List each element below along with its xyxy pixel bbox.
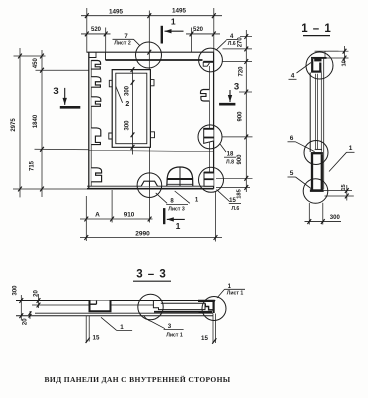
svg-text:1: 1 (120, 324, 124, 331)
svg-text:ВИД ПАНЕЛИ ДАН С ВНУТРЕННЕЙ СТ: ВИД ПАНЕЛИ ДАН С ВНУТРЕННЕЙ СТОРОНЫ (44, 375, 230, 384)
svg-text:910: 910 (124, 211, 135, 218)
svg-text:Лист 1: Лист 1 (166, 332, 183, 338)
svg-text:3 – 3: 3 – 3 (136, 269, 167, 281)
svg-text:2975: 2975 (11, 118, 17, 132)
svg-text:20: 20 (23, 318, 29, 325)
svg-text:18: 18 (227, 152, 234, 158)
svg-text:1495: 1495 (172, 7, 187, 14)
svg-text:3: 3 (53, 86, 58, 97)
svg-text:520: 520 (91, 27, 102, 33)
svg-text:270: 270 (238, 37, 244, 48)
svg-text:1840: 1840 (33, 114, 39, 128)
svg-text:3: 3 (234, 82, 239, 93)
svg-text:185: 185 (237, 189, 243, 199)
svg-text:6: 6 (290, 135, 294, 142)
svg-text:720: 720 (238, 66, 244, 77)
svg-text:2990: 2990 (135, 230, 150, 237)
svg-text:15: 15 (201, 335, 208, 342)
svg-text:900: 900 (237, 154, 243, 165)
svg-text:450: 450 (33, 58, 39, 69)
svg-text:Л.6: Л.6 (228, 41, 236, 47)
svg-text:Лист 1: Лист 1 (227, 291, 244, 297)
svg-text:4: 4 (291, 73, 295, 80)
svg-text:А: А (95, 212, 100, 219)
svg-text:715: 715 (30, 160, 36, 171)
svg-text:900: 900 (238, 111, 244, 122)
svg-text:2: 2 (125, 101, 129, 108)
svg-text:300: 300 (124, 120, 130, 131)
svg-text:300: 300 (13, 285, 19, 296)
svg-text:1 – 1: 1 – 1 (301, 23, 332, 35)
svg-text:1495: 1495 (109, 8, 124, 15)
svg-text:15: 15 (341, 184, 347, 190)
svg-text:Лист 2: Лист 2 (114, 41, 131, 47)
svg-text:Л.8: Л.8 (226, 159, 234, 165)
svg-text:520: 520 (193, 27, 204, 33)
svg-text:1: 1 (171, 16, 176, 26)
svg-text:300: 300 (330, 215, 341, 221)
svg-text:3: 3 (168, 323, 172, 330)
svg-text:10: 10 (342, 60, 348, 66)
svg-text:300: 300 (124, 85, 130, 96)
svg-text:Лист 3: Лист 3 (168, 206, 185, 212)
svg-text:20: 20 (33, 290, 39, 297)
svg-text:1: 1 (349, 145, 353, 152)
svg-text:1: 1 (176, 221, 181, 231)
svg-text:5: 5 (290, 170, 294, 177)
svg-text:15: 15 (93, 334, 100, 341)
svg-text:Л.6: Л.6 (231, 206, 239, 212)
